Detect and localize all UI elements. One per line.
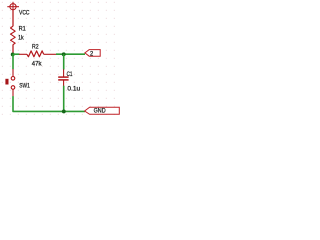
- svg-text:2: 2: [90, 51, 93, 58]
- svg-text:SW1: SW1: [19, 83, 30, 90]
- node junction at C1 / bottom rail: [62, 109, 66, 113]
- global label GND: [85, 107, 120, 114]
- svg-text:R2: R2: [32, 43, 39, 50]
- resistor R2: [19, 51, 56, 57]
- wire junction down to C1: [63, 54, 65, 69]
- svg-text:C1: C1: [67, 71, 73, 78]
- SW1 actuator: [5, 79, 8, 85]
- wire SW1 to bottom rail and GND: [13, 96, 85, 111]
- svg-text:1k: 1k: [18, 34, 24, 41]
- svg-text:GND: GND: [94, 108, 106, 115]
- resistor R1: [11, 26, 16, 44]
- capacitor C1: [58, 69, 68, 86]
- grid dots (decorative): [0, 0, 120, 121]
- wire VCC to R1: [12, 10, 14, 27]
- node junction at R1 / R2 / SW1: [11, 52, 15, 56]
- wire junction down to SW1: [12, 54, 14, 69]
- wire junction to R2: [13, 53, 20, 55]
- wire R2 to label 2: [56, 53, 85, 55]
- wire C1 to bottom rail: [63, 86, 65, 112]
- svg-text:47k: 47k: [32, 60, 43, 67]
- global label 2: [85, 50, 100, 58]
- svg-text:0.1u: 0.1u: [67, 85, 80, 92]
- svg-text:VCC: VCC: [19, 10, 30, 17]
- svg-text:R1: R1: [19, 25, 27, 32]
- switch SW1: [11, 69, 15, 96]
- power symbol VCC: [7, 2, 19, 10]
- node junction at R2 / C1 / label 2: [62, 52, 66, 56]
